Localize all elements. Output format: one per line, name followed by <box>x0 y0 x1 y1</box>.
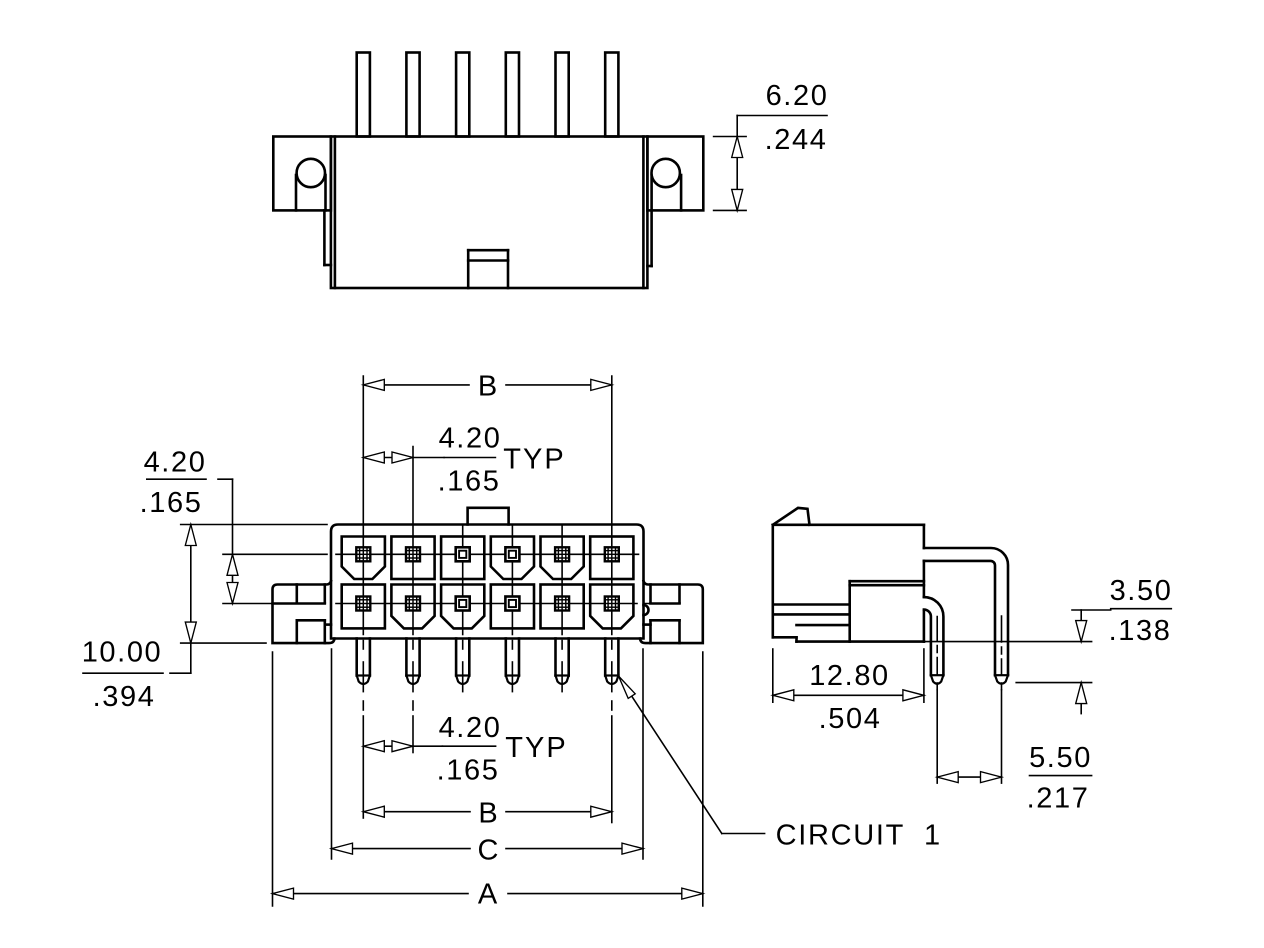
svg-text:TYP: TYP <box>503 444 565 476</box>
svg-text:.165: .165 <box>140 487 203 519</box>
svg-text:.217: .217 <box>1027 783 1090 815</box>
svg-text:A: A <box>478 879 498 911</box>
svg-text:CIRCUIT: CIRCUIT <box>776 820 906 852</box>
svg-text:B: B <box>478 798 497 830</box>
svg-text:.165: .165 <box>437 755 500 787</box>
svg-text:B: B <box>478 371 497 403</box>
svg-text:C: C <box>478 835 499 867</box>
svg-text:.244: .244 <box>765 124 828 156</box>
svg-text:12.80: 12.80 <box>809 660 890 692</box>
svg-text:3.50: 3.50 <box>1110 575 1173 607</box>
svg-text:.504: .504 <box>819 703 882 735</box>
svg-text:4.20: 4.20 <box>439 423 502 455</box>
svg-text:10.00: 10.00 <box>82 637 163 669</box>
svg-text:4.20: 4.20 <box>439 712 502 744</box>
svg-text:.394: .394 <box>93 681 156 713</box>
svg-text:.138: .138 <box>1109 615 1172 647</box>
svg-text:TYP: TYP <box>505 732 567 764</box>
svg-text:4.20: 4.20 <box>144 447 207 479</box>
svg-text:6.20: 6.20 <box>766 80 829 112</box>
svg-text:5.50: 5.50 <box>1029 742 1092 774</box>
svg-text:1: 1 <box>924 820 940 852</box>
svg-text:.165: .165 <box>438 466 501 498</box>
